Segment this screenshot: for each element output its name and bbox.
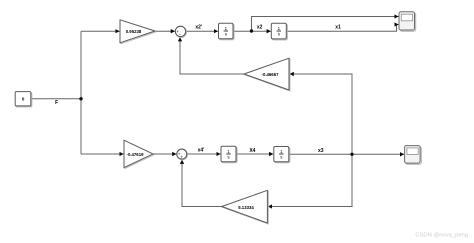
svg-text:x1: x1	[335, 25, 341, 31]
svg-text:+: +	[180, 155, 183, 160]
svg-text:x4': x4'	[198, 148, 205, 154]
svg-text:F: F	[55, 100, 58, 106]
svg-text:x2': x2'	[195, 25, 202, 31]
svg-text:0.95238: 0.95238	[126, 29, 142, 34]
svg-text:5.13334: 5.13334	[238, 205, 254, 210]
svg-text:-0.46667: -0.46667	[262, 72, 280, 77]
svg-text:X4: X4	[249, 148, 255, 154]
svg-text:x3: x3	[318, 148, 324, 154]
svg-text:-0.47619: -0.47619	[127, 152, 145, 157]
svg-text:x2: x2	[257, 24, 263, 30]
svg-text:CSDN @nova_peng: CSDN @nova_peng	[415, 233, 468, 239]
svg-text:−: −	[179, 32, 182, 37]
